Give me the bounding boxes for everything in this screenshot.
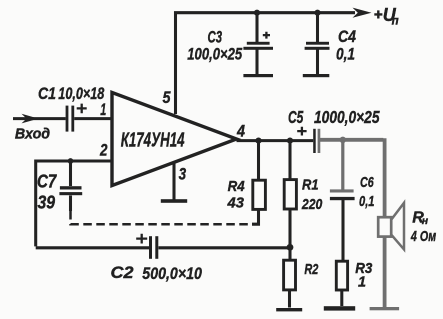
svg-text:С2: С2 [111,264,134,282]
svg-text:1000,0×25: 1000,0×25 [314,107,380,127]
svg-text:100,0×25: 100,0×25 [187,46,242,64]
svg-text:39: 39 [38,193,56,213]
svg-text:С4: С4 [338,28,356,46]
svg-text:п: п [392,16,399,28]
svg-text:4 Ом: 4 Ом [410,228,436,245]
svg-text:2: 2 [99,142,107,160]
svg-text:5: 5 [163,89,172,107]
svg-text:43: 43 [227,195,245,212]
svg-text:1: 1 [358,274,366,291]
svg-text:1: 1 [100,101,106,119]
svg-text:220: 220 [301,196,323,213]
svg-text:К174УН14: К174УН14 [121,130,185,152]
svg-text:4: 4 [236,123,245,141]
svg-text:0,1: 0,1 [336,46,355,64]
svg-text:С6: С6 [360,174,374,191]
svg-text:500,0×10: 500,0×10 [142,265,202,283]
svg-text:10,0×18: 10,0×18 [58,85,105,103]
svg-text:С7: С7 [37,171,57,191]
svg-text:3: 3 [179,165,187,183]
svg-text:н: н [422,215,429,227]
svg-text:Вход: Вход [15,126,50,142]
svg-text:R4: R4 [228,178,246,195]
svg-text:С3: С3 [208,28,223,46]
svg-text:С5: С5 [288,107,303,127]
svg-text:С1: С1 [38,85,56,103]
svg-text:R1: R1 [302,177,319,194]
svg-text:0,1: 0,1 [359,193,375,210]
svg-text:R2: R2 [304,261,318,278]
